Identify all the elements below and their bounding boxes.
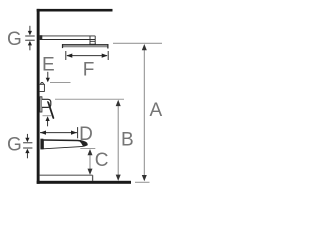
dim D: tick [77, 127, 79, 138]
dim B: down arrowhead [116, 175, 121, 181]
svg-text:E: E [42, 54, 55, 75]
dim A: up arrowhead [142, 44, 147, 50]
svg-text:B: B [121, 130, 134, 151]
svg-text:A: A [149, 100, 162, 121]
dim A: down arrowhead [142, 175, 147, 181]
dim A: vertical line [143, 47, 145, 177]
ceiling [37, 9, 113, 12]
dim D: right arrowhead [71, 131, 77, 135]
dim G top: tick upper [25, 35, 35, 37]
dim C: down arrowhead [88, 169, 93, 175]
dim B: up arrowhead [116, 100, 121, 106]
svg-text:C: C [95, 150, 109, 171]
dim F: left tick [65, 51, 67, 60]
dim C: up arrowhead [88, 149, 93, 155]
valve lever [47, 101, 54, 119]
svg-text:G: G [7, 29, 22, 50]
tub spout top edge [43, 140, 86, 143]
up arrow under valve [46, 116, 50, 121]
dim C: ext line [80, 148, 95, 150]
tub edge [92, 175, 94, 181]
floor [37, 181, 131, 184]
shower head top [62, 44, 109, 45]
dim G bottom: tick upper [23, 142, 32, 144]
dim G bottom: tick lower [23, 147, 32, 149]
dim G top: down arrow [29, 26, 31, 32]
shower head end caps [62, 44, 63, 48]
dim F: right tick [107, 51, 109, 60]
valve escutcheon [40, 97, 42, 112]
dim C: vertical line [89, 153, 91, 172]
dim A: bottom ext tick [135, 181, 150, 183]
tub spout body [43, 140, 87, 149]
dim F: line [67, 55, 107, 57]
dim E: down arrow [47, 72, 49, 78]
dim G top: up arrow [28, 41, 32, 46]
svg-text:G: G [7, 134, 22, 155]
ext line valve bottom [43, 115, 52, 117]
dim F: left arrowhead [66, 54, 72, 58]
wall [37, 9, 40, 184]
valve body [42, 99, 51, 107]
shower arm tube [42, 36, 95, 40]
dim D: left arrowhead [40, 131, 46, 135]
supply elbow fitting [41, 83, 44, 85]
shower arm flange [40, 35, 43, 40]
shower head face hatch [63, 45, 109, 47]
dim G top: tick lower [25, 39, 35, 41]
svg-text:F: F [83, 60, 95, 81]
dim B: ext line [55, 98, 124, 100]
dim B: vertical line [117, 103, 119, 176]
dim A: top ext line [113, 42, 162, 44]
dim G bottom: down arrow [26, 134, 28, 138]
tub spout flange [40, 139, 43, 150]
shower arm drop [89, 36, 96, 44]
dim F: right arrowhead [102, 54, 108, 58]
ext line valve top [50, 82, 71, 84]
dim G bottom: up arrow [25, 149, 29, 154]
dim D: line [40, 132, 77, 134]
tub rim [40, 174, 93, 176]
tub spout tip [80, 141, 88, 147]
